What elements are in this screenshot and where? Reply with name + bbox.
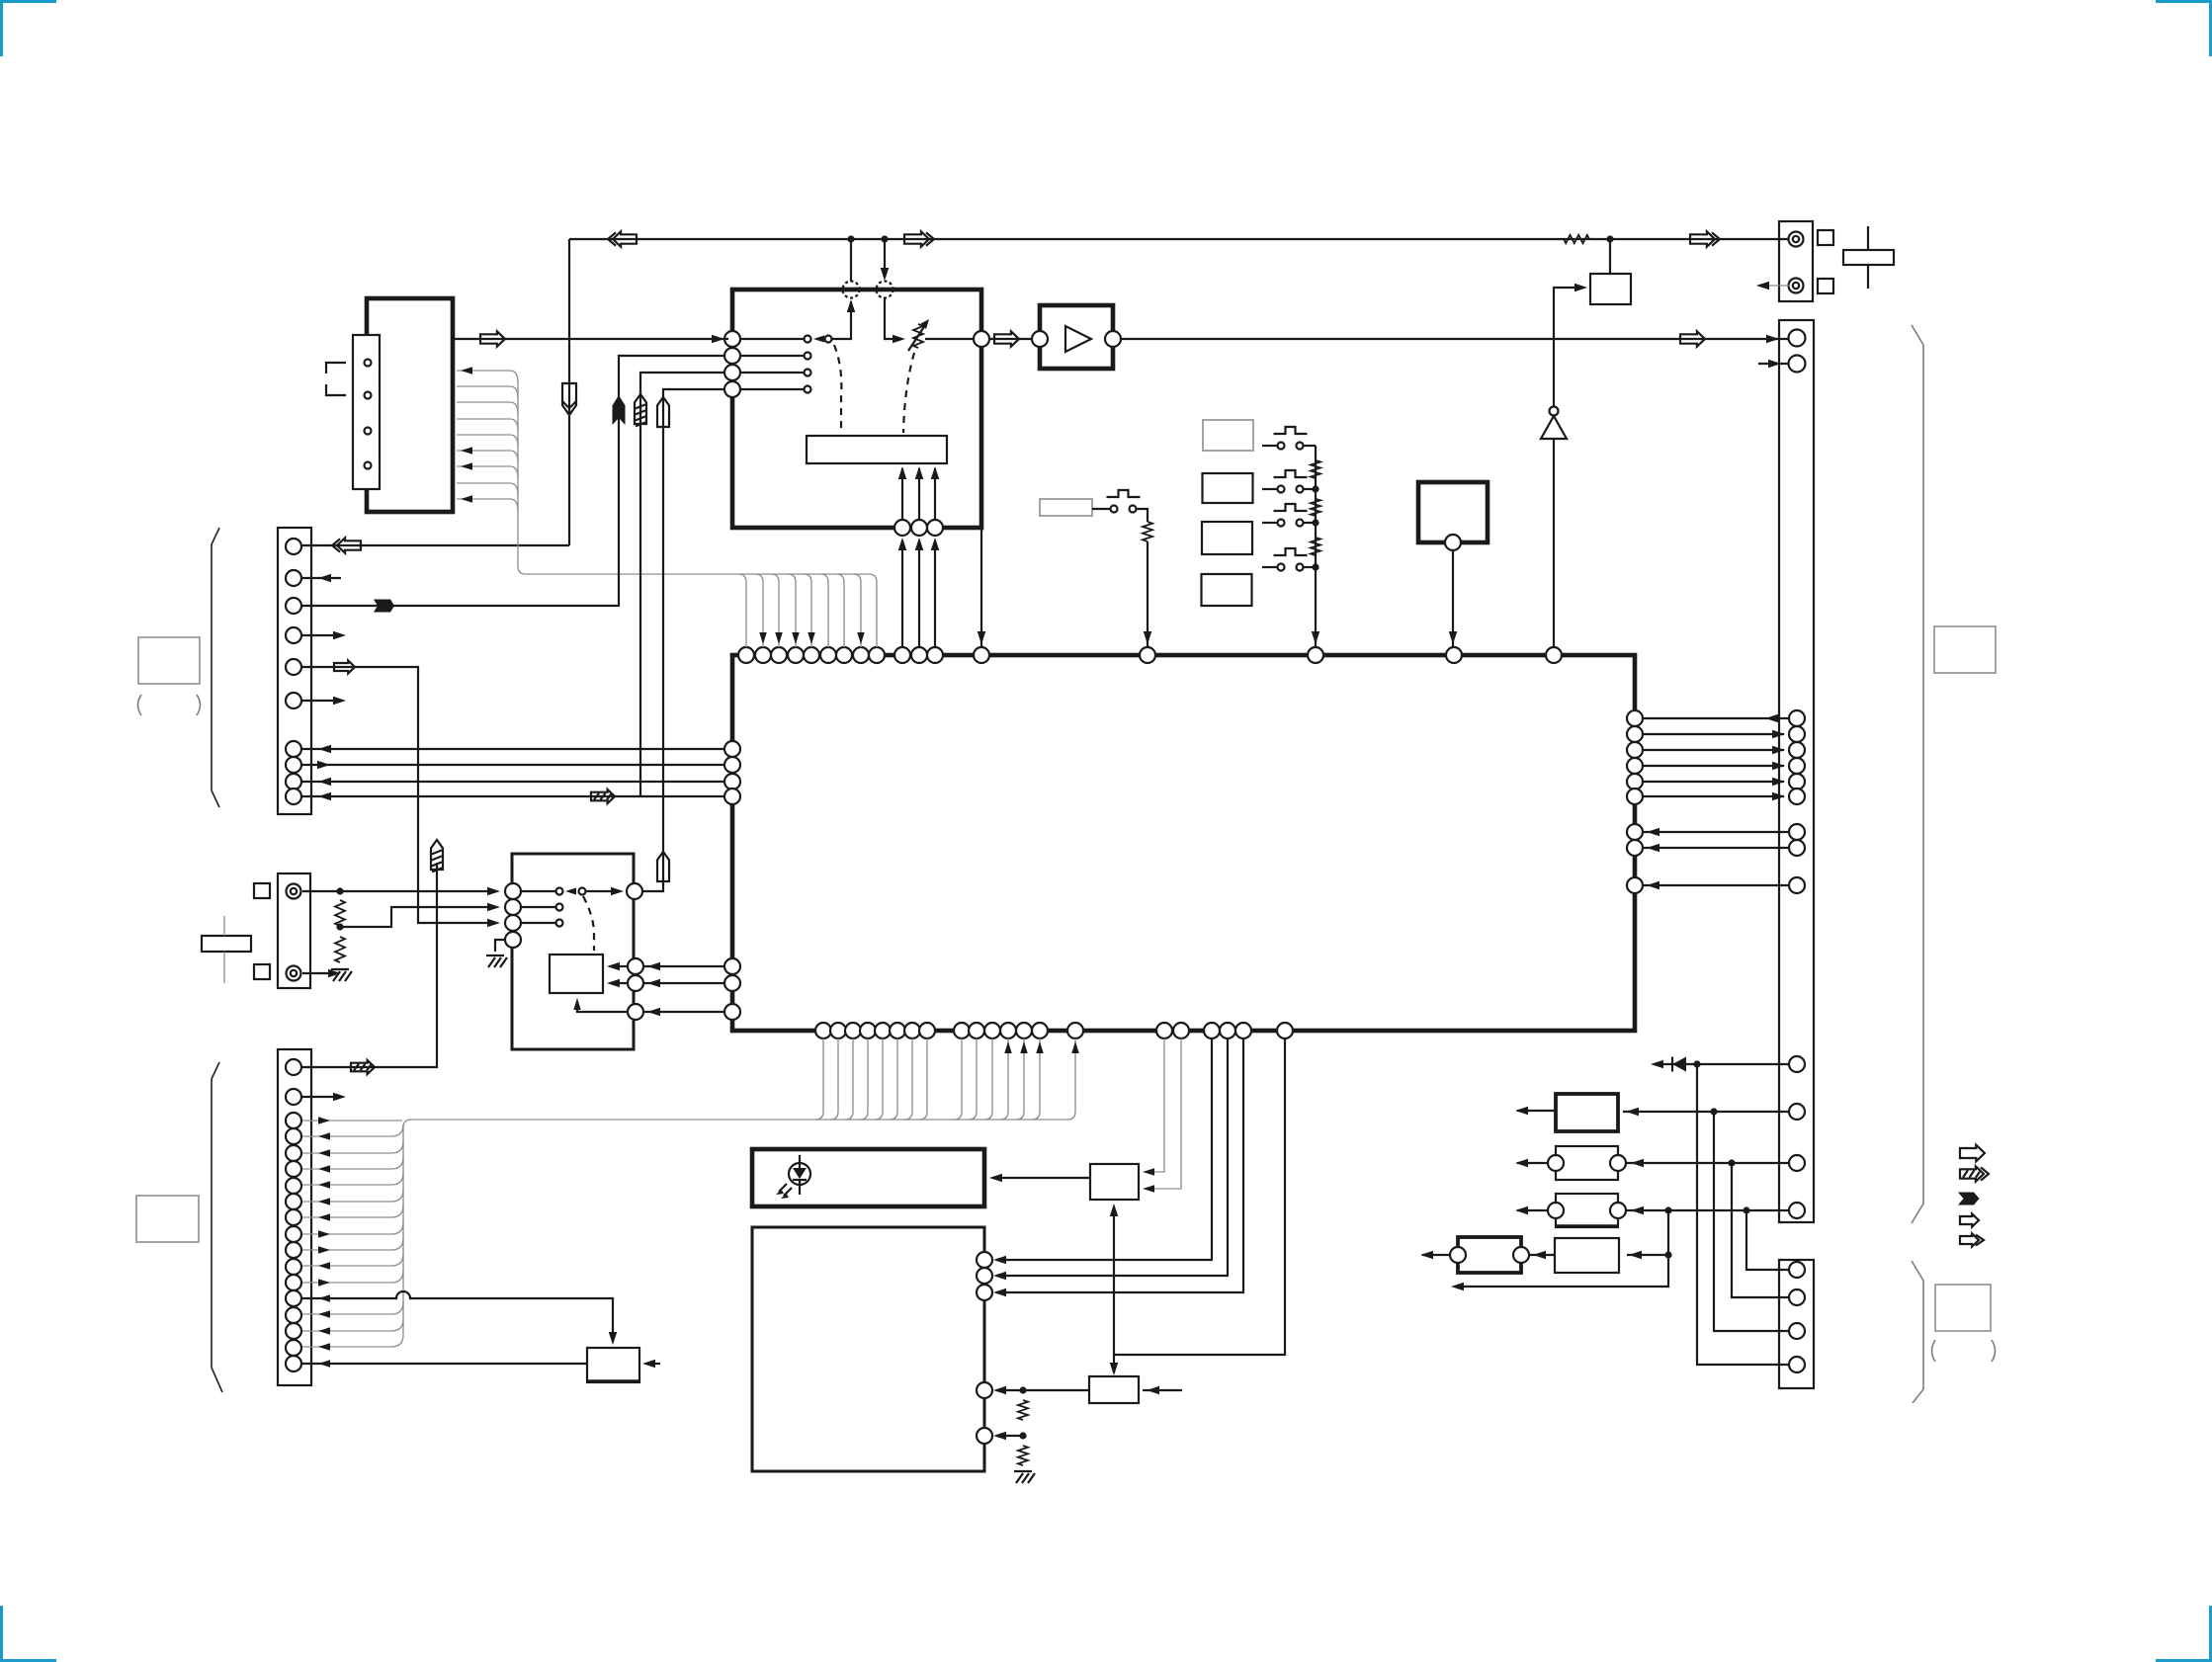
wire tape-head lead w3 from MD101 into bus xyxy=(457,402,518,414)
pin circle CN301-a2 xyxy=(1789,356,1806,373)
wire CN301-11 to box B1 with arrow xyxy=(1623,1108,1788,1117)
wire display bus branch to IC601 pin x=878 xyxy=(860,1039,868,1120)
wire tape-head bus branch to IC601 pin x=788 xyxy=(771,574,783,647)
wire K1 lead to SW1 xyxy=(1262,445,1277,447)
pin circle IC601 top tuner1 xyxy=(894,647,910,663)
wire tape-head lead w7 from MD101 into bus xyxy=(457,462,518,478)
pin circle CN301-4 xyxy=(1789,758,1805,774)
pin circle U101-IN1 xyxy=(724,331,740,347)
wire junction down to CN302-2 xyxy=(1732,1163,1788,1297)
pin circle IC601 top t4 xyxy=(788,647,804,663)
parenthesis right under annotation box xyxy=(197,695,201,715)
right cable bracket 1 xyxy=(1912,325,1923,1223)
pin circle CN302-4 xyxy=(1789,1357,1805,1372)
tape head connector strip inside MD101 xyxy=(353,335,380,489)
pin circle CN201-12 xyxy=(286,1259,301,1275)
key switch SW0 contacts xyxy=(1111,506,1137,513)
wire CN101-4 stub with arrow xyxy=(302,631,346,640)
pin circle IC601 bottom b5 xyxy=(875,1023,891,1039)
wire tape-head bus branch to IC601 pin x=821 xyxy=(804,574,815,647)
pin circle IC601 top tuner2 xyxy=(911,647,927,663)
inverter Q302 (triangle with bubble) xyxy=(1541,407,1567,440)
regulator box B1 (thick) xyxy=(1556,1094,1618,1131)
pin circle IC601 left l4 xyxy=(724,789,740,804)
pin circle IC601 bottom b8 xyxy=(919,1023,935,1039)
pin circle IC601 right r1 xyxy=(1627,710,1643,726)
solid arrow marker on CN101-3 wire xyxy=(374,600,394,613)
arrowhead select direction S1 xyxy=(813,336,824,343)
pin circle MD601-5 xyxy=(977,1428,992,1444)
junction node a on CN301-13 wire xyxy=(1664,1206,1671,1213)
wire U101-B1 up into U102 with arrow xyxy=(898,466,907,520)
pin circle S101-3 xyxy=(505,915,521,931)
thick bottom edge of D1 xyxy=(587,1379,639,1382)
parenthesis right bottom-right xyxy=(1992,1340,1996,1362)
wire from top bus dot down to mixer node M2 with arrow xyxy=(881,239,890,281)
crystal X301 top lead xyxy=(1867,226,1869,250)
wire B5 output stub with arrow xyxy=(1420,1251,1450,1260)
wire SW1 to key bus xyxy=(1304,445,1316,447)
dashed control line in S101 xyxy=(583,896,594,951)
regulator box B2 xyxy=(1556,1146,1618,1180)
jack J301-1 inner xyxy=(1793,236,1799,242)
wire display bus branch to IC601 pin x=893 xyxy=(875,1039,883,1120)
wire inverter input from MCU pin xyxy=(1553,439,1555,647)
wire CN201 row 1380 into D1 xyxy=(302,1360,587,1368)
solid arrow marker (up) on vertical of CN101-3 net xyxy=(613,395,626,425)
wire tape-head bus branch to IC601 pin x=772 xyxy=(755,574,767,647)
wire IC601-r4 to CN301-4 with arrow xyxy=(1643,762,1785,771)
wire from top bus dot down to mixer node M1 xyxy=(850,239,852,282)
head pin h4 xyxy=(365,462,372,469)
pin circle IC601 left m1 xyxy=(724,958,740,974)
pin circle B3 left xyxy=(1548,1203,1564,1218)
pin circle CN101-10 xyxy=(286,789,301,804)
annotation box left (gray) xyxy=(138,637,200,684)
pin circle CN201-18 xyxy=(286,1356,301,1371)
pin circle S101-4 xyxy=(505,932,521,948)
wire K2 lead to SW2 xyxy=(1262,488,1277,490)
pin circle CN301-5 xyxy=(1789,774,1805,789)
pin circle CN201-14 xyxy=(286,1290,301,1306)
pin circle IC601 bottom b2 xyxy=(830,1023,846,1039)
pin circle IC601 left l1 xyxy=(724,741,740,757)
pin circle U101-IN2 xyxy=(724,348,740,364)
arrowhead into U101-IN1 xyxy=(712,335,724,344)
pin circle IC601 left l3 xyxy=(724,774,740,789)
pin circle IC601 left m2 xyxy=(724,975,740,991)
wire MCU pin to U101-B1 with arrow xyxy=(898,538,907,647)
jack J101-1 inner xyxy=(291,888,297,894)
resistor R123 on key bus xyxy=(1311,499,1320,516)
annotation box bottom-right (gray) xyxy=(1935,1285,1991,1331)
wire CN201-1 hatched net to page connector xyxy=(302,863,437,1067)
key switch SW2 cap xyxy=(1274,470,1308,477)
mount square J301-a xyxy=(1818,230,1833,245)
wire IC201 output to CN301 jack xyxy=(1121,338,1788,340)
wire top bus left drop to CN101 pin1 xyxy=(302,239,569,545)
power connector CN302 xyxy=(1779,1260,1814,1388)
variable attenuator VR1 xyxy=(908,319,929,351)
ground at R602 xyxy=(1014,1471,1035,1483)
tape head gap symbol lower xyxy=(326,384,346,395)
wire tape-head lead w1 from MD101 into bus xyxy=(457,367,518,382)
wire U101-OUT to amp with open arrow xyxy=(989,338,1032,340)
wire IC601-r5 to CN301-5 with arrow xyxy=(1643,778,1785,787)
pin circle CN201-16 xyxy=(286,1323,301,1339)
wire IC601-r2 to CN301-2 with arrow xyxy=(1643,730,1785,739)
hollow arrow marker lower on U101-IN4 net xyxy=(657,852,669,881)
pin circle B5 right xyxy=(1513,1247,1529,1263)
page connector arrow A5 (double chevron left) on CN101 pin1 wire xyxy=(332,538,361,552)
regulator box B4 xyxy=(1555,1238,1619,1273)
pin circle CN201-4 xyxy=(286,1128,301,1144)
pin circle MD601-1 xyxy=(977,1252,992,1268)
legend arrow open right xyxy=(1960,1145,1985,1162)
junction node R101/R102 xyxy=(336,923,343,930)
pin circle CN101-5 xyxy=(286,659,301,675)
wire CN201 row y=1330 lead into display bus xyxy=(302,1302,403,1318)
wire IC601-r6 to CN301-6 with arrow xyxy=(1643,792,1785,801)
junction key bus row3 xyxy=(1312,519,1319,526)
pin circle CN301-9 xyxy=(1789,877,1805,893)
legend arrow small open xyxy=(1960,1214,1979,1227)
resistor R102 xyxy=(335,937,345,962)
wire CN201 row y=1265 lead into display bus xyxy=(302,1238,403,1254)
wire display bus branch to IC601 pin x=863 xyxy=(845,1039,853,1120)
pin circle IC601 bottom b11 xyxy=(984,1023,1000,1039)
wire B2 output stub with arrow xyxy=(1515,1159,1548,1168)
switch contact S4a xyxy=(805,386,811,393)
wire CN201 row y=1281 lead into display bus xyxy=(302,1254,403,1270)
wire CN301-9 to IC601-r9 with arrow xyxy=(1643,881,1788,890)
junction node on CN301-11 wire xyxy=(1710,1108,1717,1115)
switch contact S101-2a xyxy=(556,904,563,911)
pin circle CN301-11 xyxy=(1789,1104,1805,1120)
page connector arrow A8 (open right) on MD101 output xyxy=(480,331,505,346)
control logic box U102 inside U101 xyxy=(807,436,947,463)
pin circle CN301-3 xyxy=(1789,742,1805,758)
wire S101-1 to contact xyxy=(521,890,555,892)
wire U101-IN2 to contact row2 xyxy=(740,355,804,357)
wire U101 corner down to MCU pin with arrow xyxy=(978,528,986,647)
pin circle CN301-13 xyxy=(1789,1203,1805,1218)
legend arrow hatched right xyxy=(1960,1166,1989,1181)
junction key bus row4 xyxy=(1312,563,1319,570)
page connector arrow A9 (small open right) on CN101-5 wire xyxy=(334,661,355,674)
wire mixer M2 down and right to attenuator xyxy=(885,297,905,343)
pin circle IC601 bottom b7 xyxy=(904,1023,920,1039)
wire junction b down to CN302-1 xyxy=(1746,1210,1788,1270)
crystal X301 body xyxy=(1843,250,1894,265)
wire CN201 row y=1167 lead into display bus xyxy=(302,1141,403,1157)
resistor R601 xyxy=(1018,1400,1028,1420)
wire tape-head lead w6 from MD101 into bus xyxy=(457,447,518,462)
pin circle CN301-2 xyxy=(1789,726,1805,742)
key switch SW2 contacts xyxy=(1278,486,1304,493)
annotation box right-mid (gray) xyxy=(1934,626,1996,673)
pin circle CN101-9 xyxy=(286,774,301,789)
wire CN201 row y=1298 lead into display bus xyxy=(302,1271,403,1287)
pin circle S101-c3 xyxy=(628,1004,643,1020)
wire tape-head lead w5 from MD101 into bus xyxy=(457,435,518,447)
junction node after diode xyxy=(1693,1060,1700,1067)
pin circle CN302-3 xyxy=(1789,1323,1805,1339)
wire CN201 row y=1347 lead into display bus xyxy=(302,1319,403,1335)
wire tape-head lead w8 from MD101 into bus xyxy=(457,483,518,495)
pin circle S101-1 xyxy=(505,883,521,899)
wire tape-head bus branch to IC601 pin x=871 xyxy=(853,574,865,647)
pin circle CN301-10 xyxy=(1789,1056,1805,1072)
pin circle IC601 top t5 xyxy=(804,647,819,663)
pin circle CN301-1 xyxy=(1789,710,1805,726)
pin circle B2 right xyxy=(1610,1155,1626,1171)
aux input jack block J101 xyxy=(278,873,310,988)
wire tape-head bus branch to IC601 pin x=755 xyxy=(738,574,746,647)
pin circle MD601-2 xyxy=(977,1268,992,1284)
LED D601 cathode bar xyxy=(793,1179,807,1181)
dashed control line to attenuator VR1 xyxy=(903,353,914,433)
LED D601 circle xyxy=(789,1163,810,1185)
arrowhead into CN301 jack1 xyxy=(1766,335,1779,344)
wire tape-head lead w9 from MD101 into bus xyxy=(457,495,518,511)
wire IC601-ir2 to IC602 with arrow xyxy=(1143,1039,1181,1193)
pin circle CN201-7 xyxy=(286,1178,301,1194)
wire IC601-mech3 to MD601-3 with arrow xyxy=(993,1039,1243,1296)
wire U101-B2 up into U102 with arrow xyxy=(915,466,924,520)
arrowhead select direction S101 xyxy=(565,888,576,895)
pin circle IC601 bottom b9 xyxy=(954,1023,970,1039)
wire S101-c3 into S102 bottom with arrow xyxy=(573,998,628,1012)
wire K3 lead to SW3 xyxy=(1262,522,1277,524)
wire display bus branch to IC601 pin x=1088 xyxy=(1067,1039,1079,1120)
wire B1 output stub with arrow xyxy=(1515,1107,1556,1116)
tape/tuner select block U101 (thick box) xyxy=(732,290,981,528)
page connector arrow A3 (double chevron right) near CN301 xyxy=(1690,231,1720,246)
wire display bus branch to IC601 pin x=973 xyxy=(954,1039,962,1120)
resistor R124 on key bus xyxy=(1311,538,1320,555)
pin circle S101-2 xyxy=(505,899,521,915)
wire divider tap to SW101 row2 with arrow xyxy=(340,903,500,927)
wire CN201 row y=1216 lead into display bus xyxy=(302,1190,403,1205)
pin circle CN101-8 xyxy=(286,757,301,773)
motor drive box E1 xyxy=(1089,1376,1139,1403)
annotation box left-bottom (gray) xyxy=(136,1196,199,1242)
pin circle IC601 top t8 xyxy=(853,647,869,663)
pin circle IC601 bottom mech2 xyxy=(1220,1023,1235,1039)
resistor R11 on top bus xyxy=(1564,235,1589,243)
junction node on CN301-12 wire xyxy=(1728,1159,1735,1166)
pin circle CN201-5 xyxy=(286,1145,301,1161)
wire CN301-13 to box B3 with arrow xyxy=(1627,1206,1788,1215)
key bus vertical xyxy=(1312,446,1320,647)
wire display bus branch to IC601 pin x=1004 xyxy=(984,1039,992,1120)
switch contact S2a xyxy=(805,353,811,360)
pin circle CN302-1 xyxy=(1789,1262,1805,1278)
pin circle IC301 bottom xyxy=(1445,535,1461,550)
left cable bracket for CN201 xyxy=(212,1062,222,1392)
pin circle U101-IN3 xyxy=(724,365,740,380)
pin circle IC601 top t1 xyxy=(738,647,754,663)
bus wire display harness CN201 to IC601 xyxy=(403,1120,1067,1335)
wire IC601-r3 to CN301-3 with arrow xyxy=(1643,746,1785,755)
hatched arrow marker (up) on U101-IN3 net xyxy=(635,394,646,426)
pin circle IC601 top key2 xyxy=(1308,647,1323,663)
pin circle U101-B3 bottom xyxy=(927,520,943,536)
wire S101-2 to contact xyxy=(521,906,555,908)
registration mark bottom-right xyxy=(2156,1606,2212,1662)
wire SW4 to key bus xyxy=(1304,566,1316,568)
muting control box Q301 xyxy=(1590,274,1631,304)
page connector arrow A1 (double chevron left) on top bus xyxy=(608,231,637,246)
pin circle CN301-12 xyxy=(1789,1155,1805,1171)
wire CN101-10 to IC601 and U101-IN3 net xyxy=(302,792,724,801)
pin circle IC601 right r4 xyxy=(1627,758,1643,774)
wire display bus branch to IC601 pin x=938 xyxy=(919,1039,927,1120)
key switch SW3 contacts xyxy=(1278,520,1304,527)
wire stub into CN301-a2 with arrow xyxy=(1758,360,1788,369)
wire tape-head lead w4 from MD101 into bus xyxy=(457,419,518,431)
dashed control line to switch S1 xyxy=(834,345,841,433)
wire MCU pin to U101-B2 with arrow xyxy=(915,538,924,647)
wire S101-c1 into S102 with arrow xyxy=(607,962,628,971)
wire U101-IN1 to select contact a xyxy=(740,338,804,340)
pin circle IC601 bottom b3 xyxy=(845,1023,861,1039)
wire CN201 row y=1199 lead into display bus xyxy=(302,1173,403,1189)
wire IC601 to S101-c3 with arrow xyxy=(643,1008,724,1017)
pin circle CN101-7 xyxy=(286,741,301,757)
bus wire tape-head harness xyxy=(518,382,869,574)
pin circle CN101-3 xyxy=(286,598,301,614)
wire display bus branch to IC601 pin x=1020 xyxy=(1000,1039,1012,1120)
cassette mechanism block MD601 (box) xyxy=(752,1227,984,1471)
wire junction a down to B4 and stub xyxy=(1451,1210,1668,1290)
pin circle IC601 top t3 xyxy=(771,647,787,663)
pin circle CN201-13 xyxy=(286,1275,301,1290)
wire display bus branch to IC601 pin x=833 xyxy=(815,1039,823,1120)
key switch SW1 contacts xyxy=(1278,443,1304,450)
mixer node M2 (dashed circle) xyxy=(877,282,893,298)
legend arrow solid xyxy=(1958,1193,1980,1205)
wire top bus y=242 xyxy=(569,238,1788,240)
pin circle CN301-7 xyxy=(1789,824,1805,840)
junction node on top bus at x=861 xyxy=(847,235,854,242)
pin circle CN101-2 xyxy=(286,570,301,586)
wire CN101-5 to line switch contact xyxy=(302,667,500,927)
mount square J101-a xyxy=(254,883,270,898)
pin circle IC601 left l2 xyxy=(724,757,740,773)
resistor R101 xyxy=(335,900,345,926)
wire S101-4 to ground xyxy=(495,940,505,952)
wire CN301-8 to IC601-r8 with arrow xyxy=(1643,844,1788,853)
arrowhead on diode feed wire xyxy=(1651,1060,1663,1069)
ground at S101-4 xyxy=(486,956,507,967)
wire tape-head bus branch to IC601 pin x=805 xyxy=(788,574,800,647)
wire IC601-mech2 to MD601-2 with arrow xyxy=(993,1039,1228,1280)
wire E1 right stub with arrow xyxy=(1143,1386,1182,1395)
wire display bus branch to IC601 pin x=923 xyxy=(904,1039,912,1120)
resistor R121 xyxy=(1143,522,1152,541)
switch contact S3a xyxy=(805,370,811,376)
wire display bus branch to IC601 pin x=848 xyxy=(830,1039,838,1120)
switch contact S101-1a xyxy=(556,888,563,895)
wire CN201 row y=1232 lead into display bus xyxy=(302,1205,403,1221)
legend arrow small chevron xyxy=(1960,1234,1984,1247)
pin circle IC601 bottom b12 xyxy=(1000,1023,1016,1039)
wire MD101 playback output xyxy=(453,338,728,340)
wire IR box to DS601 with arrow xyxy=(989,1174,1090,1183)
pin circle CN201-1 xyxy=(286,1059,301,1075)
pin circle IC601 bottom ir1 xyxy=(1156,1023,1172,1039)
LED D601 triangle xyxy=(793,1168,807,1179)
wire SW0 to resistor drop xyxy=(1137,509,1148,522)
hatched arrow marker (right) on CN101-10 net xyxy=(591,789,615,803)
resistor R602 xyxy=(1018,1446,1028,1465)
junction node R601/R602 xyxy=(1019,1432,1026,1439)
wire IC301 to IC601 with arrow xyxy=(1449,550,1458,647)
pin circle IC601 top t7 xyxy=(836,647,852,663)
pin circle CN302-2 xyxy=(1789,1289,1805,1305)
parenthesis left bottom-right xyxy=(1932,1340,1936,1362)
pin circle CN201-15 xyxy=(286,1307,301,1323)
pin circle IC601 bottom b6 xyxy=(890,1023,905,1039)
key function box K4 xyxy=(1202,574,1252,606)
wire R121 down to IC601 with arrow xyxy=(1144,541,1152,647)
resistor R122 on key bus xyxy=(1311,460,1320,478)
wire display bus branch to IC601 pin x=1052 xyxy=(1032,1039,1044,1120)
wire CN101-3 to U101-IN2 (solid marker net) xyxy=(302,356,724,606)
pin circle U101-IN4 xyxy=(724,381,740,397)
pin circle IC601 right r5 xyxy=(1627,774,1643,789)
wire CN101-6 stub with arrow xyxy=(302,697,346,706)
wire CN201-2 stub with arrow xyxy=(302,1093,346,1102)
amp triangle inside IC201 xyxy=(1065,326,1091,352)
wire attenuator to U101-OUT xyxy=(925,338,974,340)
wire B3 output stub with arrow xyxy=(1515,1206,1548,1215)
junction key bus row2 xyxy=(1312,485,1319,492)
registration mark bottom-left xyxy=(0,1606,56,1662)
junction node on J101-1 wire xyxy=(336,887,343,894)
page connector arrow A4 (hollow down) on left drop wire xyxy=(562,383,576,415)
wire inverter output to Q301 with arrow xyxy=(1554,284,1587,407)
registration mark top-right xyxy=(2156,0,2212,56)
pin circle IC601 bottom b13 xyxy=(1016,1023,1032,1039)
IR receiver box IC602 xyxy=(1090,1164,1139,1200)
page connector arrow A6 (open right) after U101-OUT xyxy=(994,331,1019,346)
pin circle IC601 bottom mech4 xyxy=(1277,1023,1293,1039)
diode D301 xyxy=(1672,1057,1686,1072)
wire branch down into E1 top with arrow xyxy=(1110,1355,1119,1375)
wire junction down to CN302-3 xyxy=(1714,1112,1788,1331)
system control MCU IC601 (thick box) xyxy=(732,655,1635,1031)
wire S101-c2 into S102 with arrow xyxy=(607,979,628,988)
pin circle IC601 bottom mech1 xyxy=(1204,1023,1220,1039)
page connector arrow A7 (open right) on amp output xyxy=(1680,331,1705,346)
pin circle MD601-4 xyxy=(977,1382,992,1398)
head pin h1 xyxy=(365,360,372,367)
wire U101-B3 up into U102 with arrow xyxy=(931,466,940,520)
pin circle CN101-4 xyxy=(286,627,301,643)
head pin h2 xyxy=(365,392,372,399)
wire U101-IN3 drop joining CN101-10 net xyxy=(640,373,724,796)
pin circle IC601 top t2 xyxy=(755,647,771,663)
line input switch block S101 (box) xyxy=(512,854,634,1049)
hatched arrow marker (up) on CN201-1 vertical xyxy=(431,840,443,872)
pin circle IC601 bottom b10 xyxy=(969,1023,984,1039)
pin circle CN201-8 xyxy=(286,1194,301,1209)
wire junction to MD601-5 with arrow xyxy=(993,1432,1023,1441)
pin circle CN101-6 xyxy=(286,693,301,708)
